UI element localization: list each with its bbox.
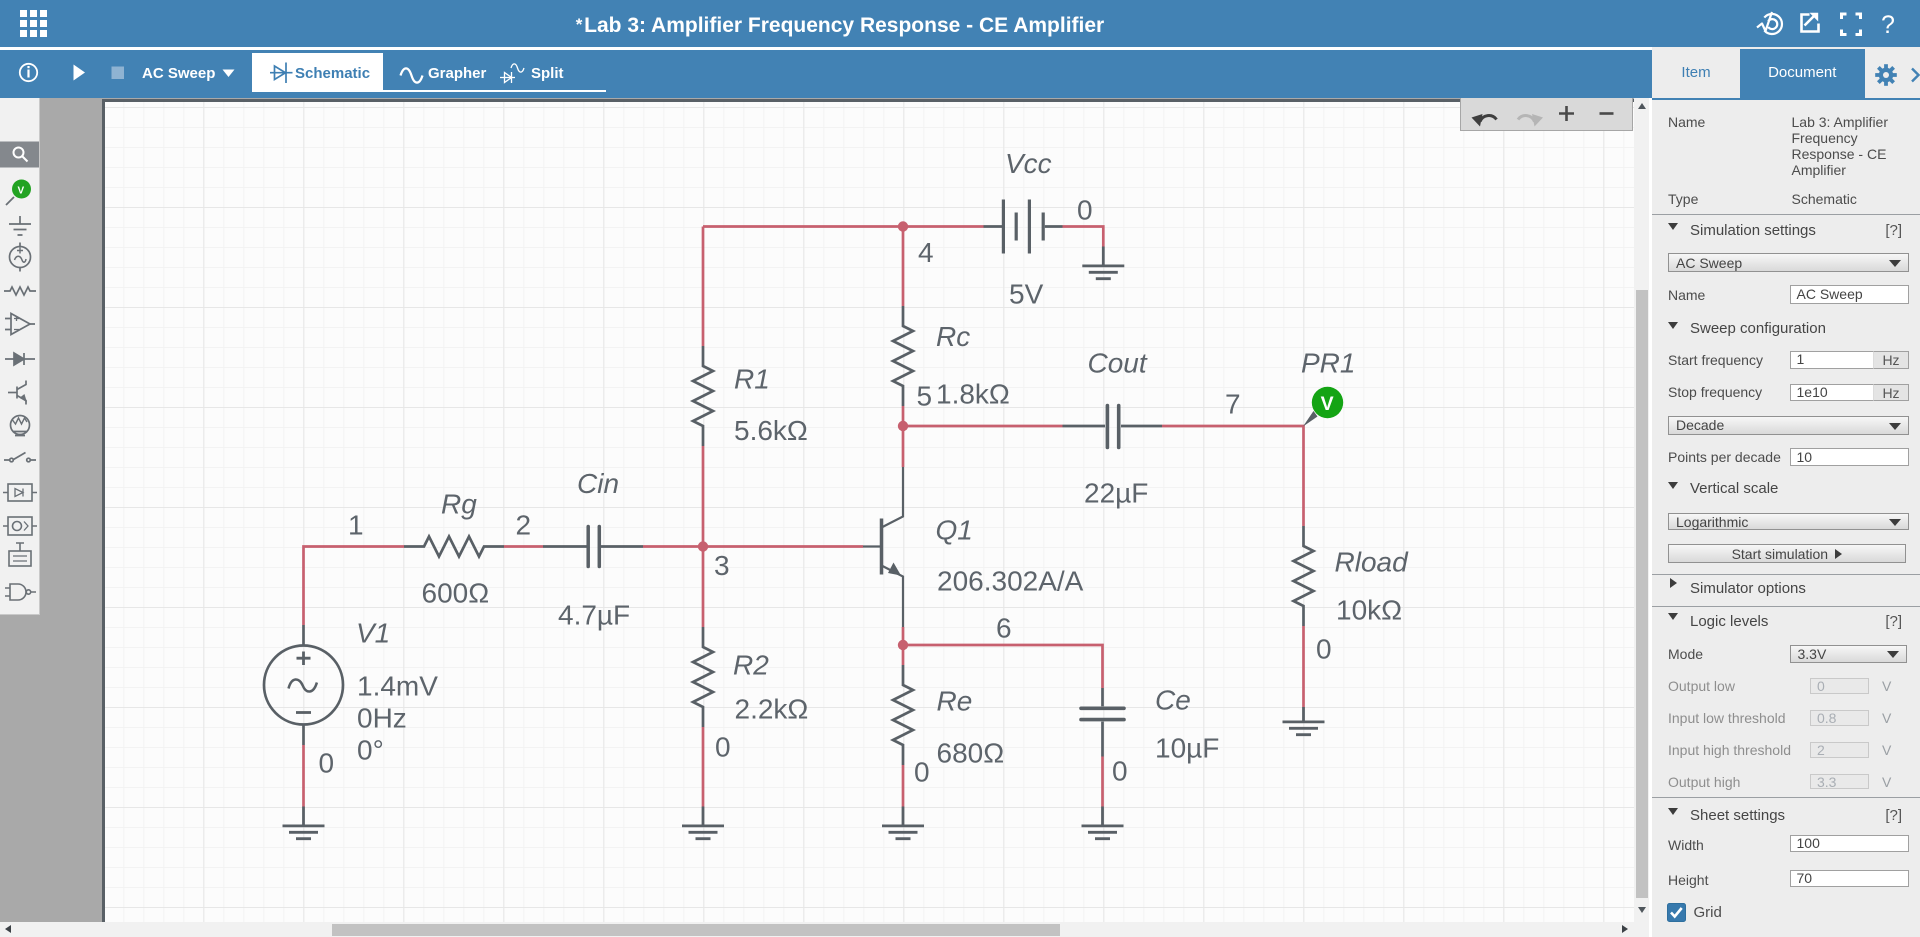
wire Vcc right to ground — [1063, 227, 1104, 247]
wire net 2: Rg to Cin — [504, 545, 543, 548]
node 3 label — [714, 550, 730, 581]
node 0 label (R2) — [715, 732, 731, 763]
node 7 label — [1225, 389, 1241, 420]
wire node5 to Q1 collector — [902, 426, 905, 467]
value 0 degrees — [357, 735, 384, 766]
svg-text:0: 0 — [715, 732, 731, 763]
value 22uF — [1084, 478, 1148, 509]
ground (Vcc) — [1082, 247, 1124, 279]
svg-text:V1: V1 — [356, 618, 390, 649]
canvas — [0, 98, 1634, 922]
resistor Rg — [404, 537, 504, 557]
svg-text:5: 5 — [917, 381, 933, 412]
ground (V1) — [283, 807, 325, 839]
label Rload — [1335, 547, 1410, 578]
junction node 3 — [698, 541, 708, 551]
node 4 label — [918, 237, 934, 268]
horizontal scrollbar — [0, 922, 1634, 937]
svg-text:Ce: Ce — [1155, 685, 1191, 716]
value 600ohm — [422, 578, 490, 609]
wire node 6 to Re — [902, 645, 905, 665]
value 5V — [1009, 279, 1044, 310]
wire net 7: Cout to Rload — [1162, 426, 1304, 526]
svg-text:0°: 0° — [357, 735, 384, 766]
svg-text:V: V — [18, 186, 25, 197]
wire Ce bottom to ground — [1101, 757, 1104, 807]
top blue bar — [0, 0, 1920, 47]
svg-text:3: 3 — [714, 550, 730, 581]
ground (Re) — [882, 807, 924, 839]
svg-text:2.2kΩ: 2.2kΩ — [735, 694, 809, 725]
label Rc — [936, 321, 970, 352]
grapher tab icon — [401, 68, 423, 82]
right panel — [1652, 47, 1920, 937]
svg-text:Split: Split — [531, 65, 564, 82]
value 4.7uF — [558, 600, 630, 631]
label R2 — [733, 650, 769, 681]
svg-text:Rload: Rload — [1335, 547, 1410, 578]
svg-text:1.8kΩ: 1.8kΩ — [936, 379, 1010, 410]
value 206.302A/A — [937, 566, 1084, 597]
resistor Rload — [1294, 526, 1314, 626]
svg-text:Q1: Q1 — [936, 515, 973, 546]
label Cout — [1088, 348, 1148, 379]
wire node3 to R2 — [702, 547, 705, 628]
svg-text:2: 2 — [516, 510, 532, 541]
svg-text:Schematic: Schematic — [295, 65, 370, 82]
node 0 label (Vcc) — [1077, 195, 1093, 226]
svg-text:7: 7 — [1225, 389, 1241, 420]
svg-text:22µF: 22µF — [1084, 478, 1148, 509]
svg-text:4: 4 — [918, 237, 934, 268]
wire net 5: node 5 to Cout — [903, 425, 1063, 428]
probe PR1 — [1303, 387, 1343, 427]
junction node 5 — [898, 421, 908, 431]
svg-text:Vcc: Vcc — [1005, 148, 1052, 179]
wire R1 top: rail to R1 — [702, 227, 705, 347]
value 5.6kohm — [734, 415, 808, 446]
wire rail to Rc — [902, 227, 905, 307]
stop (disabled) — [112, 67, 125, 80]
label Q1 — [936, 515, 973, 546]
svg-text:AC Sweep: AC Sweep — [142, 65, 215, 82]
svg-text:0Hz: 0Hz — [357, 703, 407, 734]
svg-text:4.7µF: 4.7µF — [558, 600, 630, 631]
second toolbar — [0, 47, 1920, 50]
value 680ohm — [937, 738, 1005, 769]
node 1 label — [348, 510, 364, 541]
label Cin — [577, 468, 619, 499]
wire Rload to ground — [1302, 626, 1305, 707]
resistor R2 — [693, 627, 713, 727]
label R1 — [734, 364, 770, 395]
label Rg — [441, 489, 477, 520]
label V1 — [356, 618, 390, 649]
vertical scrollbar — [1634, 98, 1649, 937]
wire Q1 emitter to node 6 — [902, 627, 905, 645]
wire Re bottom to ground — [902, 765, 905, 807]
node 6 label — [996, 613, 1012, 644]
svg-text:R1: R1 — [734, 364, 770, 395]
svg-text:206.302A/A: 206.302A/A — [937, 566, 1084, 597]
ground (Rload) — [1283, 707, 1325, 735]
wire net 6: emitter row — [903, 645, 1103, 688]
wire net 1: V1 top to Rg — [304, 547, 405, 626]
svg-text:5V: 5V — [1009, 279, 1044, 310]
wire R2 bottom to ground — [702, 727, 705, 807]
capacitor Cout — [1063, 406, 1163, 448]
svg-text:Cin: Cin — [577, 468, 619, 499]
info icon — [20, 64, 37, 81]
svg-text:1: 1 — [348, 510, 364, 541]
svg-text:0: 0 — [1112, 756, 1128, 787]
svg-text:1.4mV: 1.4mV — [357, 671, 438, 702]
label Vcc — [1005, 148, 1052, 179]
wire R1 bottom to node 3 — [702, 446, 705, 547]
value 1.8kohm — [936, 379, 1010, 410]
label Re — [937, 686, 973, 717]
svg-text:0: 0 — [1316, 634, 1332, 665]
svg-text:PR1: PR1 — [1301, 348, 1355, 379]
svg-text:10µF: 10µF — [1155, 733, 1219, 764]
AC source V1 — [264, 625, 343, 745]
value 1.4mV — [357, 671, 438, 702]
junction node 4 — [898, 221, 908, 231]
resistor Rc — [893, 306, 913, 406]
value 10kohm — [1336, 595, 1402, 626]
svg-text:Rc: Rc — [936, 321, 970, 352]
node 0 label (Re) — [914, 757, 930, 788]
svg-text:Re: Re — [937, 686, 973, 717]
value 10uF — [1155, 733, 1219, 764]
node 5 label — [917, 381, 933, 412]
svg-text:10kΩ: 10kΩ — [1336, 595, 1402, 626]
wire net 3: Cin to node 3 to Q1 base — [643, 545, 863, 548]
capacitor Cin — [543, 527, 643, 567]
ground (R2) — [682, 807, 724, 839]
schematic tab icon (blue diode) — [270, 63, 293, 84]
node 2 label — [516, 510, 532, 541]
svg-text:0: 0 — [319, 748, 335, 779]
transistor Q1 — [863, 467, 903, 627]
svg-text:0: 0 — [914, 757, 930, 788]
capacitor Ce — [1081, 688, 1124, 757]
svg-text:Rg: Rg — [441, 489, 477, 520]
battery Vcc — [984, 200, 1063, 254]
node 0 label (Rload) — [1316, 634, 1332, 665]
svg-text:Cout: Cout — [1088, 348, 1148, 379]
wire V1 bottom to ground — [302, 745, 305, 807]
svg-text:600Ω: 600Ω — [422, 578, 490, 609]
svg-text:R2: R2 — [733, 650, 769, 681]
ground (Ce) — [1082, 807, 1124, 839]
value 0Hz — [357, 703, 407, 734]
node 0 label (V1) — [319, 748, 335, 779]
label PR1 — [1301, 348, 1355, 379]
svg-text:6: 6 — [996, 613, 1012, 644]
resistor Re — [893, 665, 913, 765]
value 2.2kohm — [735, 694, 809, 725]
label Ce — [1155, 685, 1191, 716]
split tab icon — [500, 64, 524, 83]
svg-text:0: 0 — [1077, 195, 1093, 226]
wire Rc bottom to node 5 — [902, 406, 905, 426]
play — [74, 65, 86, 81]
resistor R1 — [693, 346, 713, 446]
svg-text:5.6kΩ: 5.6kΩ — [734, 415, 808, 446]
svg-text:V: V — [1321, 393, 1334, 415]
junction node 6 — [898, 640, 908, 650]
node 0 label (Ce) — [1112, 756, 1128, 787]
wire net 4: top rail — [703, 225, 984, 228]
svg-text:?: ? — [1881, 11, 1895, 39]
svg-text:Grapher: Grapher — [428, 65, 487, 82]
svg-text:680Ω: 680Ω — [937, 738, 1005, 769]
